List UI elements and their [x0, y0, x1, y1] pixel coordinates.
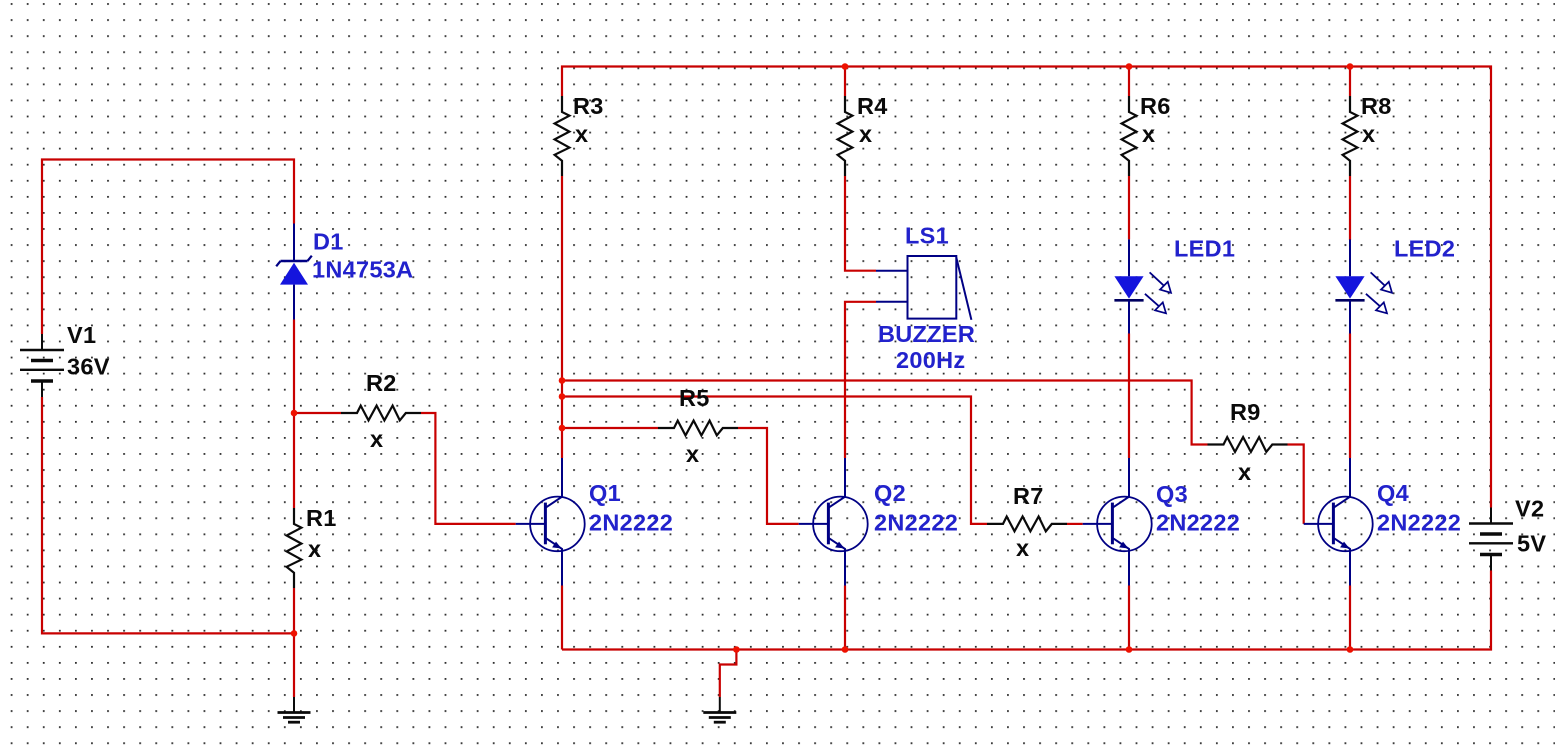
- svg-text:Q1: Q1: [589, 480, 621, 506]
- svg-text:x: x: [686, 441, 699, 467]
- wire top rail to R8: [1349, 67, 1351, 97]
- wire R1 to node B: [293, 588, 295, 633]
- junction bottom rail Q4: [1347, 646, 1354, 653]
- resistor R1: [287, 505, 337, 588]
- wire node C to R9: [562, 381, 1208, 445]
- wire Q3 emitter to bottom rail: [1128, 586, 1130, 650]
- transistor Q4: [1304, 458, 1461, 585]
- svg-text:R1: R1: [306, 505, 337, 531]
- junction top rail R8: [1347, 63, 1354, 70]
- svg-text:V2: V2: [1515, 496, 1544, 522]
- junction bottom rail Q2: [842, 646, 849, 653]
- resistor R4: [838, 93, 888, 176]
- svg-text:x: x: [1142, 121, 1155, 147]
- junction bottom rail ground: [733, 646, 740, 653]
- wire LED2 to Q4 collector: [1349, 334, 1351, 459]
- node D junction: [559, 393, 566, 400]
- resistor R8: [1343, 93, 1392, 176]
- zener diode D1: [276, 224, 413, 320]
- wire node A to R2: [294, 412, 341, 414]
- junction top rail R6: [1126, 63, 1133, 70]
- node C junction: [559, 377, 566, 384]
- svg-text:x: x: [1362, 121, 1375, 147]
- svg-text:x: x: [370, 426, 383, 452]
- junction bottom rail Q3: [1126, 646, 1133, 653]
- buzzer LS1: [876, 223, 975, 374]
- svg-text:R3: R3: [573, 93, 604, 119]
- wire Q4 emitter to bottom rail: [1349, 586, 1351, 650]
- svg-text:x: x: [1238, 459, 1251, 485]
- LED2: [1335, 236, 1455, 334]
- svg-text:5V: 5V: [1517, 531, 1546, 557]
- wire top rail to R4: [844, 67, 846, 97]
- svg-text:V1: V1: [67, 322, 96, 348]
- wire R3 to Q1 collector: [561, 176, 563, 458]
- battery V2: [1469, 496, 1546, 571]
- svg-text:x: x: [308, 536, 321, 562]
- wire buzzer pin 2 to Q2 collector: [845, 302, 876, 458]
- svg-text:R9: R9: [1230, 399, 1261, 425]
- wire top rail: [562, 67, 1491, 508]
- junction top rail R4: [842, 63, 849, 70]
- resistor R5: [658, 385, 738, 467]
- svg-text:2N2222: 2N2222: [1156, 510, 1240, 536]
- svg-text:2N2222: 2N2222: [1377, 510, 1461, 536]
- transistor Q3: [1083, 458, 1240, 585]
- svg-text:R5: R5: [679, 385, 710, 411]
- LED1: [1114, 236, 1235, 334]
- wire Q1 emitter to bottom rail: [561, 586, 563, 650]
- svg-text:LS1: LS1: [905, 223, 949, 249]
- svg-text:BUZZER: BUZZER: [878, 321, 975, 347]
- svg-text:R7: R7: [1013, 483, 1044, 509]
- node A junction: [291, 410, 298, 417]
- ground 1: [278, 697, 311, 722]
- wire top rail to R6: [1128, 67, 1130, 97]
- svg-text:Q3: Q3: [1156, 481, 1188, 507]
- wire R7 to Q3 base: [1067, 523, 1083, 525]
- wire node B to ground: [293, 633, 295, 697]
- svg-text:LED1: LED1: [1174, 236, 1235, 262]
- svg-text:x: x: [1016, 535, 1029, 561]
- resistor R7: [987, 483, 1067, 561]
- resistor R6: [1122, 93, 1171, 176]
- wire R5 to Q2 base: [738, 428, 799, 524]
- svg-text:R8: R8: [1361, 93, 1392, 119]
- svg-text:Q2: Q2: [874, 480, 906, 506]
- svg-text:1N4753A: 1N4753A: [312, 257, 413, 283]
- svg-text:36V: 36V: [67, 354, 110, 380]
- svg-text:LED2: LED2: [1394, 236, 1455, 262]
- transistor Q1: [516, 458, 673, 585]
- wire node A to R1: [293, 413, 295, 508]
- svg-text:2N2222: 2N2222: [874, 510, 958, 536]
- wire R9 to Q4 base: [1288, 445, 1304, 524]
- svg-text:200Hz: 200Hz: [896, 347, 965, 373]
- node E junction: [559, 425, 566, 432]
- wire bottom rail to ground 2: [720, 650, 737, 698]
- svg-text:2N2222: 2N2222: [589, 510, 673, 536]
- wire R8 to LED2: [1349, 176, 1351, 240]
- svg-text:R2: R2: [366, 370, 397, 396]
- wire node E to R5: [562, 427, 658, 429]
- node B junction: [291, 630, 298, 637]
- wire R4 to buzzer pin 1: [845, 176, 876, 271]
- resistor R3: [555, 93, 604, 176]
- svg-text:R4: R4: [857, 93, 888, 119]
- wire V1 top to D1: [42, 160, 294, 335]
- wire Q2 emitter to bottom rail: [844, 586, 846, 650]
- svg-text:x: x: [575, 121, 588, 147]
- resistor R2: [341, 370, 421, 452]
- svg-text:x: x: [859, 121, 872, 147]
- battery V1: [20, 322, 110, 397]
- resistor R9: [1208, 399, 1288, 485]
- wire bottom rail: [562, 571, 1491, 650]
- svg-text:Q4: Q4: [1377, 480, 1409, 506]
- svg-text:D1: D1: [313, 229, 344, 255]
- wire R2 to Q1 base: [421, 413, 516, 524]
- wire node D to R7: [562, 397, 987, 524]
- svg-text:R6: R6: [1140, 93, 1171, 119]
- wire V1 bottom to node B: [42, 397, 294, 633]
- transistor Q2: [799, 458, 958, 585]
- wire LED1 to Q3 collector: [1128, 334, 1130, 459]
- wire R6 to LED1: [1128, 176, 1130, 239]
- ground 2: [703, 697, 736, 722]
- wire D1 to node A: [293, 320, 295, 414]
